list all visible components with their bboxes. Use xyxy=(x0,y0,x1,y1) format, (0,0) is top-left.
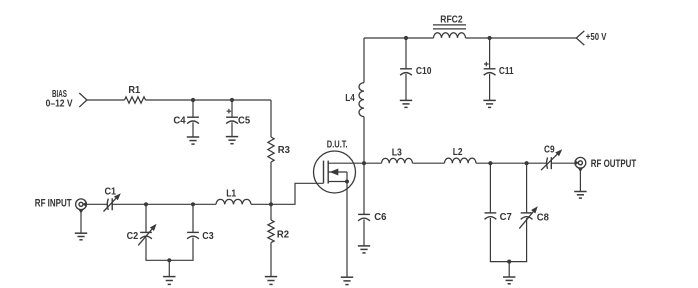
junction node C11 xyxy=(488,36,492,40)
capacitor C5 polarized xyxy=(226,100,250,137)
svg-text:L2: L2 xyxy=(453,146,463,158)
wire bias arrow to R1 xyxy=(87,99,125,101)
inductor L1 xyxy=(216,187,251,204)
svg-text:R2: R2 xyxy=(277,228,289,240)
+50 V terminal arrow xyxy=(576,31,584,45)
svg-text:C10: C10 xyxy=(416,65,432,77)
ground under input tie xyxy=(163,276,175,278)
wire R2 to ground xyxy=(270,243,272,277)
wire R1 to corner above R3 xyxy=(146,99,272,101)
svg-text:C6: C6 xyxy=(374,211,386,223)
capacitor C2 variable xyxy=(127,204,157,260)
capacitor C6 xyxy=(358,163,387,246)
svg-text:D.U.T.: D.U.T. xyxy=(327,140,348,151)
svg-text:RF INPUT: RF INPUT xyxy=(35,198,72,210)
wire tie to ground xyxy=(168,260,170,276)
svg-text:C5: C5 xyxy=(238,114,250,126)
svg-text:C9: C9 xyxy=(544,144,555,156)
svg-text:C4: C4 xyxy=(173,114,185,126)
inductor RFC2 xyxy=(433,14,466,38)
junction node input tie ground xyxy=(167,258,171,262)
ground under C5 xyxy=(226,136,238,138)
ground under C6 xyxy=(358,245,370,247)
ground under output tie xyxy=(503,276,515,278)
ground under C4 xyxy=(187,136,199,138)
junction node drain xyxy=(362,161,366,165)
svg-text:L1: L1 xyxy=(226,187,236,199)
junction node C2 xyxy=(144,202,148,206)
capacitor C11 polarized xyxy=(484,38,514,100)
connector J1 RF input xyxy=(76,199,87,214)
svg-text:C2: C2 xyxy=(127,230,139,242)
junction node C10 xyxy=(404,36,408,40)
svg-text:R1: R1 xyxy=(128,84,140,96)
ground under R2 xyxy=(265,276,277,278)
wire input connector to ground xyxy=(80,210,82,234)
capacitor C4 xyxy=(173,100,199,137)
svg-text:0–12 V: 0–12 V xyxy=(46,99,73,110)
svg-text:C7: C7 xyxy=(500,211,512,223)
wire bias corner down to R3 xyxy=(270,100,272,137)
wire gate node to MOSFET gate xyxy=(271,183,324,204)
wire top rail L4 to RFC2 xyxy=(364,37,434,39)
capacitor C8 variable xyxy=(519,163,549,261)
wire C2-C3 ground tie xyxy=(145,259,193,261)
transistor D.U.T. MOSFET xyxy=(314,140,365,193)
svg-text:+50 V: +50 V xyxy=(586,31,607,43)
svg-text:RFC2: RFC2 xyxy=(440,14,462,26)
svg-text:RF OUTPUT: RF OUTPUT xyxy=(591,158,637,170)
capacitor C9 variable xyxy=(541,144,562,171)
resistor R1 xyxy=(125,84,146,103)
wire connector to C1 xyxy=(86,203,108,205)
label BIAS 0-12 V xyxy=(46,89,73,110)
svg-text:R3: R3 xyxy=(278,144,290,156)
ground under RF input xyxy=(75,232,87,234)
junction node bias-C4 xyxy=(191,98,195,102)
inductor L4 xyxy=(345,38,364,163)
junction node gate divider xyxy=(269,202,273,206)
junction node C7 xyxy=(488,161,492,165)
svg-text:C1: C1 xyxy=(105,186,117,198)
wire L3 to L2 xyxy=(413,162,445,164)
ground under C11 xyxy=(483,99,495,101)
capacitor C3 xyxy=(187,204,214,260)
junction node bias-C5 xyxy=(230,98,234,102)
wire output tie to ground xyxy=(508,262,510,277)
bias input terminal arrow xyxy=(79,93,87,107)
wire C9 to output connector xyxy=(551,162,575,164)
svg-text:C3: C3 xyxy=(202,230,214,242)
ground under source xyxy=(341,276,353,278)
inductor L2 xyxy=(445,146,477,163)
wire L2 to C9 xyxy=(476,162,546,164)
ground under RF output xyxy=(574,191,586,193)
wire L1 to gate node xyxy=(251,203,271,205)
inductor L3 xyxy=(382,147,413,164)
wire gate node down to R2 xyxy=(270,204,272,220)
svg-text:L3: L3 xyxy=(392,147,402,159)
connector J2 RF output xyxy=(575,157,586,172)
resistor R3 xyxy=(268,137,290,162)
wire RFC2 to +50V terminal xyxy=(466,37,577,39)
junction node C8 xyxy=(525,161,529,165)
wire source to ground xyxy=(346,182,348,278)
wire C1 to L1 xyxy=(112,203,216,205)
capacitor C7 xyxy=(485,163,512,261)
resistor R2 xyxy=(268,220,289,243)
wire drain node to L3 xyxy=(364,162,382,164)
capacitor C10 xyxy=(400,38,432,100)
wire output connector to ground xyxy=(579,168,581,191)
svg-text:C8: C8 xyxy=(537,211,549,223)
wire C7-C8 ground tie xyxy=(490,261,527,263)
svg-text:C11: C11 xyxy=(499,65,514,77)
junction node output tie ground xyxy=(507,260,511,264)
ground under C10 xyxy=(400,99,412,101)
svg-text:L4: L4 xyxy=(345,92,355,104)
junction node C3 xyxy=(191,202,195,206)
wire R3 to gate node xyxy=(270,162,272,204)
capacitor C1 variable xyxy=(104,186,121,212)
